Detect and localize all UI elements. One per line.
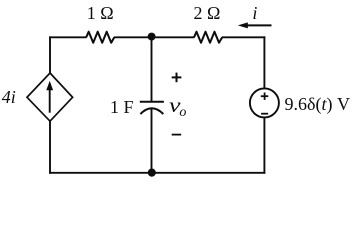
wire: middle vertical upper segment (to capacitor) xyxy=(151,37,153,101)
wire: bottom horizontal segment xyxy=(49,172,265,174)
capacitor C (1 F): straight top plate xyxy=(140,101,164,103)
svg-text:2 Ω: 2 Ω xyxy=(194,3,221,23)
resistor R2 (2 ohm) zigzag xyxy=(194,32,222,43)
- sign inside source xyxy=(261,113,268,115)
wire: top-middle horizontal segment xyxy=(114,36,194,38)
label: - polarity of vo xyxy=(172,134,182,136)
svg-text:1 F: 1 F xyxy=(110,97,134,117)
dependent current source 4i (diamond) xyxy=(27,73,73,121)
wire: middle vertical lower segment (capacitor to bottom) xyxy=(151,109,153,173)
svg-text:4i: 4i xyxy=(2,87,16,107)
wire: left vertical upper segment xyxy=(49,36,51,74)
current arrow i (pointing left) xyxy=(238,22,272,28)
wire: top-right horizontal segment xyxy=(222,36,265,38)
wire: top-left horizontal segment xyxy=(49,36,86,38)
node: bottom-center junction dot xyxy=(148,169,156,177)
svg-text:1 Ω: 1 Ω xyxy=(87,3,114,23)
svg-text:i: i xyxy=(252,3,257,23)
svg-text:o: o xyxy=(179,105,186,120)
capacitor C (1 F): curved bottom plate xyxy=(140,108,163,114)
arrow inside dependent source xyxy=(46,81,53,113)
voltage source V1 (circle) xyxy=(250,88,279,117)
+ sign inside source xyxy=(261,93,269,100)
wire: right vertical lower segment xyxy=(263,117,265,173)
wire: right vertical upper segment xyxy=(263,36,265,88)
wire: left vertical lower segment xyxy=(49,121,51,174)
svg-text:9.6δ(t) V: 9.6δ(t) V xyxy=(285,94,351,115)
node: top-center junction dot xyxy=(148,33,156,41)
label: + polarity of vo xyxy=(172,73,182,83)
resistor R1 (1 ohm) zigzag xyxy=(86,32,114,43)
